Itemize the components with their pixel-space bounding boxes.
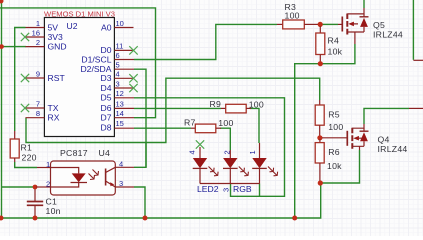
LED RGB-2 (right) bbox=[252, 143, 267, 184]
svg-text:R5: R5 bbox=[328, 110, 340, 120]
svg-text:2: 2 bbox=[46, 179, 50, 188]
label RGB bbox=[233, 184, 252, 194]
svg-text:RX: RX bbox=[48, 113, 60, 123]
RGB-1 light arrows bbox=[239, 167, 249, 176]
node: R3/R4/Q5 gate junction bbox=[318, 22, 323, 27]
svg-text:8: 8 bbox=[36, 109, 40, 118]
wire: D6 net to R9 bbox=[134, 107, 221, 109]
svg-text:U2: U2 bbox=[67, 21, 78, 31]
pin 4 D3 stub bbox=[101, 70, 134, 84]
label 10k (R6) bbox=[327, 161, 342, 171]
resistor R9 bbox=[221, 104, 251, 113]
svg-text:D6: D6 bbox=[101, 103, 112, 113]
transistor Q4 IRLZ44 bbox=[347, 124, 368, 150]
label PC817 bbox=[60, 148, 88, 158]
svg-text:13: 13 bbox=[116, 99, 124, 108]
no-connect X on TX bbox=[21, 104, 29, 112]
wire: D5 net down to LED cathode rail bbox=[134, 98, 285, 197]
opto phototransistor bbox=[106, 167, 116, 187]
wire: D1/SCL net up to R3 bbox=[134, 24, 277, 59]
svg-text:11: 11 bbox=[116, 42, 124, 51]
svg-text:R1: R1 bbox=[21, 143, 33, 153]
wire: R3/R4 junction to Q5 gate bbox=[322, 23, 338, 25]
capacitor C1 bbox=[27, 187, 43, 218]
svg-text:1: 1 bbox=[46, 160, 50, 169]
label R9 bbox=[210, 99, 222, 109]
resistor R6 bbox=[315, 139, 324, 181]
svg-text:2: 2 bbox=[222, 150, 231, 154]
wire: D2/SDA net down to opto pin 4 bbox=[134, 69, 146, 167]
wire: LED cathode rail (maroon) bbox=[200, 183, 260, 185]
label 100 (R9) bbox=[249, 100, 264, 110]
label R7 bbox=[184, 118, 196, 128]
label R1 bbox=[21, 143, 33, 153]
LED RGB-1 (middle) bbox=[223, 150, 238, 184]
wire: Q4 drain rail to right edge bbox=[364, 108, 409, 124]
wire: top horizontal rail to D7 bbox=[0, 8, 156, 118]
node: bottom-left junction bbox=[0, 216, 4, 221]
label IRLZ44 (Q4) bbox=[378, 144, 408, 154]
wire: R1 bottom to opto pin1 bbox=[15, 162, 37, 168]
label Q4 bbox=[378, 134, 390, 144]
wire: R4 bottom / Q5 source net bbox=[295, 44, 355, 218]
svg-text:Q4: Q4 bbox=[378, 134, 390, 144]
wire: 5V pin to R1 top bbox=[15, 28, 26, 132]
opto pin 2 bbox=[36, 179, 51, 188]
node: C1 top junction bbox=[33, 185, 38, 190]
opto pin 4 bbox=[115, 160, 134, 169]
wire: opto pin4 net vertical from RX/D2 bbox=[145, 143, 147, 168]
LED LED2 (left, no-connect anode) bbox=[193, 147, 208, 184]
svg-text:R7: R7 bbox=[184, 118, 196, 128]
label C1 bbox=[46, 197, 58, 207]
node: opto pin3 GND junction bbox=[143, 216, 148, 221]
svg-text:4: 4 bbox=[119, 160, 123, 169]
opto pin 1 bbox=[37, 160, 51, 169]
svg-text:D3: D3 bbox=[101, 73, 112, 83]
wire: right edge rail bbox=[412, 0, 414, 60]
label: U2 designator bbox=[67, 21, 78, 31]
node: C1 bottom junction bbox=[33, 216, 38, 221]
resistor R1 bbox=[10, 131, 19, 162]
label R4 bbox=[328, 36, 340, 46]
svg-text:16: 16 bbox=[32, 28, 40, 37]
svg-text:9: 9 bbox=[36, 69, 40, 78]
svg-text:4: 4 bbox=[187, 150, 196, 154]
no-connect X on RST bbox=[21, 74, 29, 82]
no-connect X on D0 bbox=[129, 46, 137, 54]
wire: R7 output down to RGB led anode bbox=[220, 128, 230, 150]
no-connect X on LED2 anode bbox=[196, 140, 204, 148]
pin number 4 (LED2, rotated) bbox=[187, 150, 196, 154]
wire: GND pin branch bbox=[2, 46, 27, 48]
svg-text:LED2: LED2 bbox=[197, 184, 219, 194]
svg-text:1: 1 bbox=[248, 150, 257, 154]
wire: RX net to R5 top (long route) bbox=[26, 78, 320, 142]
pin 2 GND stub bbox=[26, 38, 67, 52]
pin 10 A0 stub bbox=[101, 19, 134, 33]
pin 11 D0 stub bbox=[101, 42, 134, 56]
svg-text:7: 7 bbox=[36, 99, 40, 108]
pin number 3 (LED2 cathode, rotated) bbox=[222, 188, 231, 192]
label 10n bbox=[46, 206, 61, 216]
svg-text:10n: 10n bbox=[46, 206, 61, 216]
svg-text:IRLZ44: IRLZ44 bbox=[378, 144, 408, 154]
svg-text:D5: D5 bbox=[101, 93, 112, 103]
svg-text:U4: U4 bbox=[99, 148, 111, 158]
transistor Q5 IRLZ44 bbox=[342, 8, 368, 44]
svg-text:D8: D8 bbox=[101, 123, 112, 133]
label U4 bbox=[99, 148, 111, 158]
svg-text:D7: D7 bbox=[101, 113, 112, 123]
pin 14 D7 stub bbox=[101, 109, 135, 123]
LED2 light arrows bbox=[209, 167, 219, 176]
pin 3 D4 stub bbox=[101, 79, 134, 93]
label 100 bbox=[285, 11, 300, 21]
svg-text:100: 100 bbox=[249, 100, 264, 110]
svg-text:100: 100 bbox=[218, 118, 233, 128]
label: WEMOS D1 MINI V3 bbox=[44, 9, 115, 18]
opto light arrows bbox=[89, 170, 99, 180]
svg-text:WEMOS D1 MINI V3: WEMOS D1 MINI V3 bbox=[44, 9, 115, 18]
pin 5 D2/SDA stub bbox=[80, 61, 134, 75]
wire: R9 output down to RGB led anode bbox=[250, 108, 259, 143]
wire: left vertical GND rail bbox=[1, 0, 3, 218]
svg-text:PC817: PC817 bbox=[60, 148, 88, 158]
pin 13 D6 stub bbox=[101, 99, 135, 113]
resistor R7 bbox=[191, 124, 221, 133]
label R5 bbox=[328, 110, 340, 120]
IC U2 WEMOS D1 MINI box bbox=[44, 18, 114, 137]
label 100 (R5) bbox=[328, 122, 343, 132]
wire: opto pin3 down to GND rail bbox=[134, 187, 145, 218]
wire: Q4 source to R6 junction bbox=[321, 150, 360, 183]
wire: right edge rail stub maroon bbox=[413, 59, 423, 61]
svg-text:3: 3 bbox=[116, 79, 120, 88]
label R3 bbox=[285, 2, 297, 12]
label IRLZ44 (Q5) bbox=[373, 30, 403, 40]
RGB-2 light arrows bbox=[268, 167, 278, 176]
svg-text:15: 15 bbox=[116, 119, 124, 128]
pin number 2 (RGB-1, rotated) bbox=[222, 150, 231, 154]
wire: Q5 drain up to top edge bbox=[363, 0, 365, 8]
svg-text:RST: RST bbox=[48, 73, 66, 83]
resistor R4 bbox=[316, 26, 325, 62]
svg-text:D1/SCL: D1/SCL bbox=[81, 54, 111, 64]
svg-text:TX: TX bbox=[48, 103, 59, 113]
label R6 bbox=[328, 147, 340, 157]
pin number 1 (RGB-2, rotated) bbox=[248, 150, 257, 154]
svg-text:14: 14 bbox=[116, 109, 124, 118]
svg-text:R9: R9 bbox=[210, 99, 222, 109]
svg-text:100: 100 bbox=[328, 122, 343, 132]
label 10k bbox=[328, 47, 343, 57]
wire: Q5 gate stub bbox=[338, 23, 342, 25]
svg-text:IRLZ44: IRLZ44 bbox=[373, 30, 403, 40]
pin 16 3V3 stub bbox=[25, 28, 63, 42]
opto pin 3 bbox=[115, 179, 134, 188]
pin 1 5V stub bbox=[26, 19, 59, 33]
svg-text:3V3: 3V3 bbox=[48, 32, 64, 42]
label LED2 bbox=[197, 184, 219, 194]
pin 12 D5 stub bbox=[101, 89, 135, 103]
node: R4 bottom junction bbox=[318, 61, 323, 66]
wire: bottom GND rail bbox=[0, 184, 321, 218]
no-connect X on 3V3 bbox=[21, 33, 29, 41]
svg-text:A0: A0 bbox=[101, 22, 112, 32]
pin 7 TX stub bbox=[25, 99, 59, 113]
svg-text:1: 1 bbox=[36, 19, 40, 28]
pin 15 D8 stub bbox=[101, 119, 135, 133]
wire: D8 net to R7 bbox=[134, 127, 191, 129]
svg-text:10k: 10k bbox=[328, 47, 343, 57]
svg-text:R4: R4 bbox=[328, 36, 340, 46]
svg-text:C1: C1 bbox=[46, 197, 58, 207]
opto internal LED bbox=[51, 168, 88, 188]
node: top-left junction bbox=[0, 0, 4, 4]
svg-text:R6: R6 bbox=[328, 147, 340, 157]
resistor R3 bbox=[277, 20, 318, 29]
wire: Q4 drain maroon stub at right edge bbox=[409, 107, 423, 109]
svg-text:10k: 10k bbox=[327, 161, 342, 171]
svg-text:GND: GND bbox=[48, 41, 67, 51]
pin 6 D1/SCL stub bbox=[81, 51, 134, 65]
pin 9 RST stub bbox=[25, 69, 65, 83]
svg-text:4: 4 bbox=[116, 70, 120, 79]
svg-text:5V: 5V bbox=[48, 22, 59, 32]
resistor R5 bbox=[315, 100, 324, 136]
no-connect X on D4 bbox=[129, 84, 137, 92]
svg-text:12: 12 bbox=[116, 89, 124, 98]
svg-text:3: 3 bbox=[222, 188, 231, 192]
no-connect X on D3 bbox=[129, 74, 137, 82]
label 220 bbox=[22, 153, 37, 163]
label Q5 bbox=[373, 20, 385, 30]
wire: Q4 gate bbox=[322, 137, 347, 139]
wire: opto pin2 net to left rail bbox=[2, 186, 37, 188]
svg-text:5: 5 bbox=[116, 61, 120, 70]
node: R5/R6/Q4 gate junction bbox=[317, 135, 322, 140]
node: Q5 source net GND junction bbox=[292, 216, 297, 221]
svg-text:6: 6 bbox=[116, 51, 120, 60]
svg-text:100: 100 bbox=[285, 11, 300, 21]
pin 8 RX stub bbox=[26, 109, 60, 123]
svg-text:10: 10 bbox=[116, 19, 124, 28]
svg-text:RGB: RGB bbox=[233, 184, 252, 194]
node: R6 bottom junction bbox=[318, 180, 323, 185]
svg-text:D4: D4 bbox=[101, 83, 112, 93]
svg-text:220: 220 bbox=[22, 153, 37, 163]
optocoupler U4 PC817 box bbox=[51, 161, 116, 195]
node: GND branch junction bbox=[0, 44, 4, 49]
svg-text:2: 2 bbox=[36, 38, 40, 47]
label 100 (R7) bbox=[218, 118, 233, 128]
svg-text:3: 3 bbox=[119, 179, 123, 188]
